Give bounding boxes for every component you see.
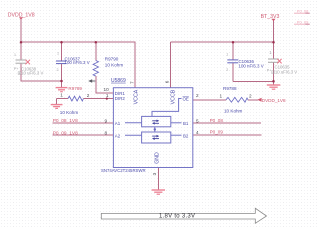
svg-text:4: 4 xyxy=(196,130,199,135)
svg-text:SN74AVC2T245RSWR: SN74AVC2T245RSWR xyxy=(101,168,146,173)
svg-text:⊞10 uF/6.3 V: ⊞10 uF/6.3 V xyxy=(271,69,297,74)
svg-text:2: 2 xyxy=(249,94,252,99)
svg-text:2: 2 xyxy=(226,68,228,72)
svg-text:P0_08: P0_08 xyxy=(210,118,224,123)
svg-text:BT_3V3: BT_3V3 xyxy=(261,14,280,20)
svg-text:9: 9 xyxy=(105,118,108,123)
svg-text:1: 1 xyxy=(220,94,223,99)
svg-text:8: 8 xyxy=(105,131,108,136)
svg-text:GND: GND xyxy=(155,152,161,164)
svg-text:⊞10 uF/6.3 V: ⊞10 uF/6.3 V xyxy=(18,71,44,76)
svg-text:VCCB: VCCB xyxy=(171,89,177,104)
svg-text:10 Kohm: 10 Kohm xyxy=(105,62,124,67)
svg-text:2: 2 xyxy=(87,93,90,98)
svg-text:2: 2 xyxy=(57,68,59,72)
svg-text:1: 1 xyxy=(60,93,63,98)
svg-text:R9790: R9790 xyxy=(105,56,119,61)
svg-text:P+: P+ xyxy=(14,67,18,71)
svg-text:A1: A1 xyxy=(115,121,121,126)
svg-text:10: 10 xyxy=(104,87,110,92)
svg-text:3: 3 xyxy=(152,172,157,175)
svg-text:2: 2 xyxy=(196,93,199,98)
svg-text:A2: A2 xyxy=(115,134,121,139)
svg-text:P0_08_1V8: P0_08_1V8 xyxy=(53,118,78,124)
svg-text:10 Kohm: 10 Kohm xyxy=(224,108,243,113)
svg-text:5: 5 xyxy=(196,118,199,123)
svg-text:1.8V to 3.3V: 1.8V to 3.3V xyxy=(159,214,195,220)
svg-text:10 Kohm: 10 Kohm xyxy=(60,110,79,115)
svg-text:DVDD_1V8: DVDD_1V8 xyxy=(262,98,286,103)
svg-text:R9789: R9789 xyxy=(68,86,82,91)
svg-text:P0_09: P0_09 xyxy=(210,129,224,134)
svg-text:1: 1 xyxy=(226,52,228,56)
svg-text:1: 1 xyxy=(57,52,59,56)
svg-text:B1: B1 xyxy=(183,121,189,126)
svg-text:B2: B2 xyxy=(183,134,189,139)
svg-text:100 nF/6.3 V: 100 nF/6.3 V xyxy=(239,63,264,68)
svg-text:P0_08: P0_08 xyxy=(297,9,309,14)
svg-text:P0_09_1V8: P0_09_1V8 xyxy=(53,130,78,136)
svg-text:100 nF/6.3 V: 100 nF/6.3 V xyxy=(65,60,90,65)
svg-text:7: 7 xyxy=(130,81,135,84)
svg-text:U5869: U5869 xyxy=(111,78,126,84)
svg-text:1: 1 xyxy=(106,93,109,98)
svg-text:6: 6 xyxy=(165,80,170,83)
svg-text:OE: OE xyxy=(183,97,189,102)
svg-text:P+: P+ xyxy=(267,68,272,72)
svg-text:1: 1 xyxy=(14,53,16,57)
svg-text:R9788: R9788 xyxy=(223,86,237,91)
svg-text:P0_09: P0_09 xyxy=(297,20,309,25)
svg-text:VCCA: VCCA xyxy=(134,89,140,104)
svg-text:DIR2: DIR2 xyxy=(115,96,126,101)
